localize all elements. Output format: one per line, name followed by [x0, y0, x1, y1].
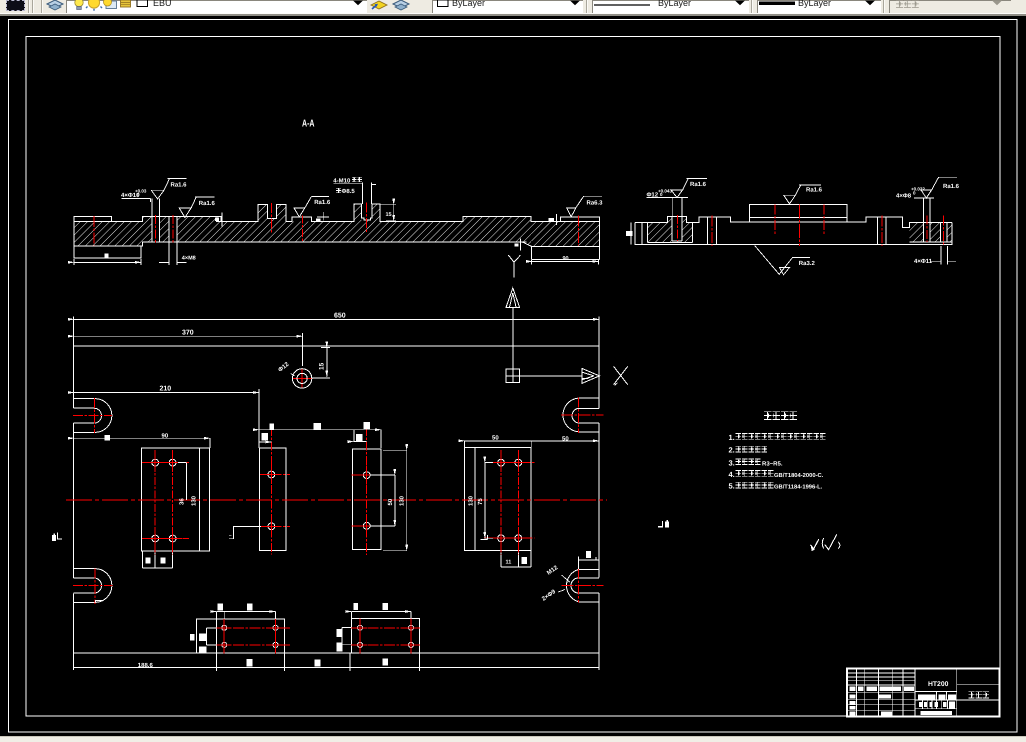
left foot [74, 246, 141, 258]
plate3 hole centerlines [366, 427, 368, 555]
color combo [432, 0, 583, 14]
bottom dim extensions [217, 653, 420, 671]
svg-text:11: 11 [506, 560, 512, 566]
svg-text:GB/T1804-2000-C.: GB/T1804-2000-C. [774, 472, 824, 479]
step tick x222 [216, 213, 228, 227]
centerline boss3 hole [881, 216, 883, 247]
svg-text:Ra1.6: Ra1.6 [171, 182, 188, 189]
slot TL centerlines [73, 414, 112, 416]
svg-text:90: 90 [563, 256, 569, 262]
mid rows [915, 691, 957, 708]
surface flag A [151, 178, 186, 199]
slot BR inner [571, 578, 599, 593]
dim 650 [74, 316, 599, 346]
svg-text:1.: 1. [729, 433, 735, 442]
title block outer [847, 669, 1000, 717]
sun in box icon [106, 1, 117, 9]
plan right edge [598, 346, 600, 670]
plate1 outline [142, 448, 210, 551]
svg-text:36: 36 [179, 498, 186, 505]
svg-text:188.6: 188.6 [138, 662, 154, 669]
slot BR centerlines [561, 584, 603, 586]
hole walls x168.8-176.8 [169, 217, 177, 242]
slot BL inner [74, 578, 102, 593]
B2 hole centerlines [359, 619, 361, 654]
layer previous icon [393, 0, 409, 8]
UCS X axis [520, 375, 583, 377]
color combo swatch [438, 0, 449, 7]
layer combo [66, 0, 367, 14]
dim 4xPhi10 leader + ext lines [122, 198, 160, 216]
dim chain y438 [209, 438, 211, 448]
mid/right dividers [915, 669, 957, 717]
make layer current icon [371, 1, 387, 9]
svg-text:130: 130 [468, 495, 475, 506]
svg-text:Ra1.6: Ra1.6 [806, 186, 823, 193]
tool button pressed dark [6, 0, 25, 11]
UCS Y label [508, 255, 520, 277]
bottom flag Ra3.2 [755, 246, 810, 275]
centerline boss2 hole [711, 216, 713, 247]
svg-text:Ra6.3: Ra6.3 [587, 200, 604, 207]
top plate [749, 205, 847, 218]
B2 holes [353, 621, 367, 635]
parenthesis check mark [822, 538, 824, 549]
plate1 feet [142, 551, 172, 568]
B1 left dims [196, 619, 216, 653]
left grid rows [847, 673, 915, 710]
foot dim text [105, 254, 109, 258]
dim 4xPhi11 ext [930, 246, 956, 265]
plate1 holes [146, 453, 165, 472]
slot TR inner [572, 408, 599, 423]
svg-text:50: 50 [492, 435, 499, 442]
step tick x323 [317, 212, 329, 221]
svg-text:GB/T1184-1996-L.: GB/T1184-1996-L. [774, 484, 823, 491]
svg-text:Ra1.6: Ra1.6 [314, 199, 331, 206]
right block centerlines [926, 216, 928, 242]
slot BL outer [74, 569, 112, 603]
dim chain y430 [259, 429, 381, 431]
svg-text:Ra3.2: Ra3.2 [799, 260, 816, 267]
svg-text:5.: 5. [729, 482, 735, 491]
svg-text:210: 210 [160, 386, 172, 393]
plate2 hole centerlines [270, 427, 272, 554]
layers tool icon [0, 0, 1026, 13]
bar top profile [74, 204, 561, 221]
svg-text:Φ12: Φ12 [647, 192, 659, 199]
svg-text:4×Φ8: 4×Φ8 [896, 193, 912, 200]
plate4 dim bracket [485, 463, 493, 539]
sun icon [88, 0, 99, 8]
surface flag D [567, 196, 602, 217]
left end raised strip [74, 217, 112, 222]
TR slot step mark [582, 379, 618, 386]
plan top edge [74, 345, 599, 347]
surface flag C [294, 196, 329, 217]
tick texts [215, 218, 219, 221]
plate4 holes [492, 453, 511, 472]
svg-text:2.: 2. [729, 446, 735, 455]
bottom plate B2 [352, 619, 420, 654]
centerline hole1 [93, 216, 95, 246]
svg-text:370: 370 [182, 330, 194, 337]
centerline hole2 [155, 215, 157, 244]
svg-text:50: 50 [562, 435, 569, 442]
svg-text:50: 50 [387, 498, 394, 505]
plan bottom edge [74, 652, 599, 654]
plate2 outline [260, 448, 286, 550]
plotstyle arrow disabled [992, 1, 1002, 6]
plate2 leader elbow [229, 526, 261, 538]
dim chain y441 right [464, 441, 531, 448]
B2 above texts [353, 603, 358, 610]
surface mark small check [810, 539, 818, 549]
centerline boss1 [271, 203, 273, 232]
dim 370 [301, 333, 303, 366]
bulb icon [75, 0, 83, 7]
plate2 holes [262, 465, 281, 484]
centerline hole3 [172, 215, 174, 244]
hole walls x152-159 [152, 217, 159, 242]
bottom chain dim line [74, 666, 599, 668]
B2 top dim [352, 612, 412, 619]
svg-text:Ra1.6: Ra1.6 [943, 183, 960, 190]
left cap inner line [641, 222, 643, 244]
dim 210 [258, 389, 260, 448]
boss2 hole walls [708, 217, 717, 244]
left grid columns [856, 669, 903, 717]
plate4 leader step [480, 535, 487, 539]
plate3 holes [357, 466, 376, 485]
B1 top dim [217, 612, 276, 620]
B1 hole centerlines [223, 619, 225, 653]
B1 above texts [218, 604, 224, 611]
hole phi12 cross [292, 368, 312, 388]
color swatch [137, 0, 148, 7]
svg-text:3.: 3. [729, 458, 735, 467]
UCS X arrowhead [582, 369, 599, 384]
hole phi12 circles [292, 369, 311, 388]
centerline boss2 [365, 203, 367, 232]
surface flag F [784, 185, 821, 204]
mid bottom dim 4xM8 [159, 242, 187, 265]
plate4 feet [501, 551, 531, 567]
bar right edge [598, 217, 600, 247]
main horizontal centerline [66, 499, 607, 501]
svg-text:4-M10: 4-M10 [333, 178, 351, 185]
toolbar [0, 0, 1026, 13]
title block filled text blobs [849, 686, 855, 691]
left cap tick [630, 222, 632, 244]
surface flag B [179, 197, 215, 218]
centerline left counterbore [676, 215, 678, 241]
section mark left A [52, 535, 56, 541]
plot style combo disabled [889, 0, 1011, 14]
dim phi12 leader [647, 198, 689, 217]
slot BR outer [567, 569, 599, 601]
right block holes walls [910, 217, 952, 242]
B2 left bracket [342, 628, 351, 645]
centerline right [578, 216, 580, 246]
plate3 outline [353, 449, 381, 549]
section A-A bar hatched body [74, 204, 599, 246]
svg-text:15: 15 [386, 212, 392, 218]
bottom plate B1 [196, 619, 284, 653]
UCS X label [614, 366, 628, 384]
bar outline [635, 222, 952, 244]
left foot dim [74, 259, 141, 265]
svg-text:R3~R5.: R3~R5. [762, 460, 783, 467]
bar bottom profile [74, 242, 599, 247]
BL slot step mark [95, 601, 102, 603]
right rows [957, 684, 1000, 700]
mid sub cells [923, 691, 948, 708]
plan left edge [73, 346, 75, 670]
B2 left rotated texts [337, 629, 343, 637]
svg-text:4.: 4. [729, 470, 735, 479]
svg-text:HT200: HT200 [928, 681, 949, 688]
slot BL centerlines [73, 585, 112, 587]
phi12 diag leader [291, 374, 295, 376]
UCS Y axis [512, 308, 514, 376]
boss3 hole walls [877, 217, 886, 244]
right end raised strip [561, 217, 600, 222]
left block edges [648, 222, 693, 242]
BR stair text [586, 551, 591, 558]
plate1 feet texts [146, 557, 151, 563]
step tick x556 [550, 214, 562, 225]
phi12 vertical dim [312, 348, 330, 379]
slot TR outer [563, 398, 599, 432]
svg-text:4×M8: 4×M8 [182, 256, 196, 262]
boss2 ext lines [333, 182, 376, 204]
surface flag E [671, 178, 707, 197]
plate4 hole centerlines [500, 450, 502, 555]
svg-text:Ra1.6: Ra1.6 [199, 200, 216, 207]
svg-text:15: 15 [319, 362, 326, 370]
svg-text:4×Φ11: 4×Φ11 [914, 258, 933, 265]
linetype sample [594, 4, 650, 6]
svg-text:Φ8.5: Φ8.5 [342, 188, 356, 195]
B1 left rotated texts [190, 634, 195, 640]
svg-text:130: 130 [399, 495, 406, 506]
BR stair [579, 557, 599, 570]
linetype combo [592, 0, 749, 14]
UCS Y arrowhead [506, 288, 520, 308]
plot/lock icon [121, 0, 131, 7]
slot TR centerlines [561, 414, 603, 416]
centerline pad [301, 216, 303, 242]
UCS origin box [506, 369, 520, 383]
right view hatched blocks [648, 217, 953, 243]
plate centerlines [774, 205, 776, 235]
lineweight sample [759, 2, 795, 6]
tech requirements latin parts [729, 433, 824, 491]
bar left edge [73, 217, 75, 246]
plate4 outline [464, 448, 531, 551]
plate1 hole centerlines [154, 450, 156, 555]
svg-text:A-A: A-A [302, 119, 315, 130]
dim 4xPhi8 ext [914, 198, 934, 217]
plate3 dim brackets [370, 475, 395, 526]
boss1 counterbore [672, 217, 682, 241]
lineweight combo [757, 0, 881, 14]
B1 holes [217, 621, 231, 635]
plate1 dim vertical lines [178, 463, 186, 500]
slot TL outer [74, 399, 112, 433]
right foot dim [532, 260, 599, 265]
svg-text:650: 650 [334, 313, 346, 320]
section mark right A [658, 521, 662, 527]
top profile [635, 217, 952, 228]
step tick x520 [515, 239, 527, 251]
surface flag G [921, 177, 957, 198]
BR diag leaders [558, 575, 570, 592]
right foot [532, 246, 600, 259]
left small text [626, 231, 632, 236]
svg-text:75: 75 [477, 498, 484, 505]
texts on chain dims [105, 435, 110, 441]
svg-text:Ra1.6: Ra1.6 [690, 181, 707, 188]
dim y441.6 short [354, 441, 367, 443]
slot TL inner [74, 408, 102, 423]
layer dropdown arrow [353, 1, 363, 6]
svg-text:90: 90 [162, 433, 169, 440]
svg-text:130: 130 [191, 495, 198, 506]
boss height dim 15 [380, 205, 396, 221]
